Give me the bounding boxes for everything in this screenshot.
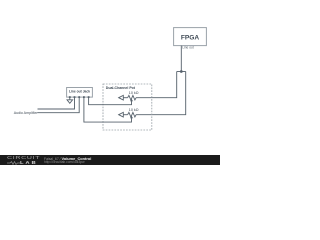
wire jack pin4 to pot R2 wiper [84,97,132,122]
wire to pot R2 top terminal [136,72,186,115]
title text [44,156,91,161]
node junction at line out tee [180,70,183,73]
FPGA U1 [174,28,207,46]
pin dots [69,96,71,98]
potentiometer R2 [119,108,139,119]
svg-text:Line out Jack: Line out Jack [69,89,90,93]
ground [67,97,73,103]
wire jack pin3 to audio amplifier (right) [38,97,80,113]
resistor zigzag R1 [128,95,137,100]
wiper tap arrow up [130,99,133,102]
circuitlab logo text LAB [20,160,37,165]
watermark bar [0,155,220,165]
url text [44,160,85,164]
wire FPGA line out drop [180,46,182,72]
dual-channel pot enclosure (dashed) [103,84,152,130]
circuitlab logo text CIRCUIT [7,156,40,161]
wire jack pin2 to audio amplifier (left) [38,97,75,109]
line out jack J1 [67,88,93,99]
wiper arrow (left) [119,95,124,100]
svg-text:10 kΩ: 10 kΩ [129,108,139,112]
circuitlab logo squiggle [7,161,20,165]
wire tee horizontal [177,71,186,73]
svg-text:Dual-Channel Pot: Dual-Channel Pot [106,86,136,90]
svg-text:Line out: Line out [182,46,193,50]
svg-text:FPGA: FPGA [181,35,200,42]
wire to pot R1 top terminal [136,72,177,98]
potentiometer R1 [119,91,139,102]
svg-text:Audio Amplifier: Audio Amplifier [14,111,39,115]
wire jack pin5 to pot R1 wiper [89,97,132,105]
svg-text:10 kΩ: 10 kΩ [129,91,139,95]
